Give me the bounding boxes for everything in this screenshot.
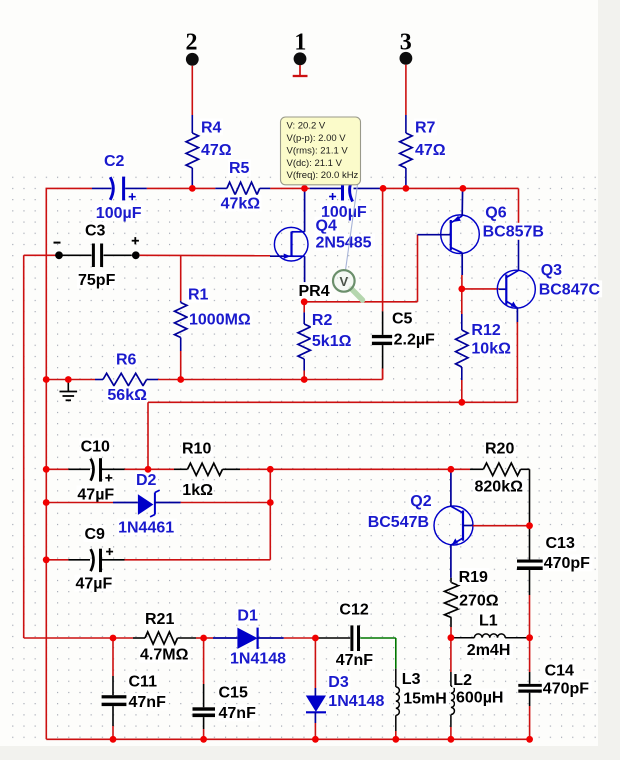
inductor L1 — [454, 634, 530, 638]
svg-text:V: V — [339, 274, 348, 289]
label D3 type 1N4148 — [327, 692, 387, 710]
svg-text:C9: C9 — [85, 526, 106, 543]
label R6 value 56kΩ — [106, 386, 148, 404]
transistor Q6 BC857B PNP — [418, 189, 480, 289]
label L3 value 15mH — [402, 689, 449, 707]
inductor L3 — [396, 638, 400, 739]
label C14 — [544, 662, 576, 680]
label R21 value 4.7MΩ — [139, 646, 190, 664]
wire C3 to R1 junction to Q4 gate — [140, 254, 270, 256]
terminal 2 — [186, 53, 199, 66]
junction L1 C13 C14 — [526, 634, 533, 641]
svg-text:47µF: 47µF — [77, 486, 114, 503]
wire top bus left corner down — [45, 188, 47, 739]
svg-text:D2: D2 — [136, 472, 157, 489]
junction D1 C12 D3 — [312, 635, 319, 642]
label C15 value 47nF — [218, 704, 258, 722]
label R4 value 47Ω — [200, 141, 232, 159]
label C13 — [545, 534, 577, 552]
junction R6 row left — [43, 376, 50, 383]
probe leader line — [345, 185, 357, 272]
wire Q4 source row to Q6 base corner — [304, 235, 417, 302]
diode D2 1N4461 — [113, 490, 181, 517]
junction R12 bottom — [458, 399, 465, 406]
svg-text:Q4: Q4 — [316, 218, 337, 235]
label R5 — [228, 159, 251, 177]
svg-text:1: 1 — [294, 29, 306, 55]
wire lower bus — [148, 402, 517, 469]
label R2 — [311, 311, 334, 329]
junction lower bus riser — [145, 466, 152, 473]
label R2 value 5k1Ω — [311, 332, 353, 350]
label L1 — [478, 612, 499, 630]
svg-text:C14: C14 — [545, 663, 574, 680]
wire Q6 collector junction to Q3 base — [462, 288, 499, 290]
svg-text:47µF: 47µF — [76, 576, 113, 593]
label Q4 type 2N5485 — [315, 234, 375, 252]
junction C9 row left — [43, 556, 50, 563]
svg-text:100µF: 100µF — [96, 205, 142, 222]
svg-text:L1: L1 — [479, 612, 498, 629]
wire C10 row — [46, 468, 470, 470]
label C1 value 100µF — [320, 203, 369, 221]
svg-text:R20: R20 — [485, 441, 514, 458]
label R20 value 820kΩ — [474, 478, 525, 496]
svg-text:820kΩ: 820kΩ — [475, 479, 524, 496]
svg-text:2: 2 — [186, 29, 198, 55]
resistor R20 — [470, 463, 530, 526]
label Q6 type BC857B — [482, 223, 546, 241]
inductor L2 — [451, 638, 455, 740]
capacitor C15 — [193, 638, 216, 739]
label R12 value 10kΩ — [470, 340, 512, 358]
junction top bus Q6 emitter — [460, 185, 467, 192]
junction L3 bottom — [392, 736, 399, 743]
label R10 value 1kΩ — [181, 481, 213, 499]
capacitor C13 — [517, 526, 544, 638]
svg-text:R21: R21 — [145, 611, 174, 628]
svg-text:47kΩ: 47kΩ — [221, 196, 261, 213]
junction ground tap — [65, 376, 72, 383]
label C3 value 75pF — [77, 271, 117, 289]
label C2 value 100µF — [95, 204, 144, 222]
junction C14 bottom — [526, 736, 533, 743]
label terminal 2 — [186, 29, 198, 55]
wire right bus corner down to Q3 collector — [518, 188, 520, 270]
junction C11 top — [110, 635, 117, 642]
svg-text:R19: R19 — [459, 569, 488, 586]
svg-text:L2: L2 — [453, 672, 472, 689]
wire bottom bus — [46, 738, 529, 740]
svg-text:47nF: 47nF — [336, 652, 374, 669]
svg-text:470pF: 470pF — [543, 681, 589, 698]
capacitor C9 — [68, 548, 124, 572]
label C13 value 470pF — [543, 554, 593, 572]
svg-text:5k1Ω: 5k1Ω — [312, 333, 352, 350]
junction D3 bottom — [312, 736, 319, 743]
svg-text:L3: L3 — [402, 671, 421, 688]
svg-text:1N4148: 1N4148 — [230, 650, 286, 667]
svg-text:R5: R5 — [229, 160, 250, 177]
label R7 — [414, 118, 437, 136]
label PR4 — [298, 282, 332, 300]
svg-text:V: 20.2 V: V: 20.2 V — [287, 121, 326, 132]
wire C9 row and right riser — [46, 469, 270, 560]
svg-text:BC857B: BC857B — [483, 224, 544, 241]
svg-text:56kΩ: 56kΩ — [107, 387, 147, 404]
wire R21 to D1 — [204, 637, 213, 639]
label R1 value 1000MΩ — [188, 311, 252, 329]
label L3 — [401, 670, 422, 688]
label D3 — [327, 673, 350, 691]
capacitor C2 — [92, 177, 147, 201]
svg-text:1000MΩ: 1000MΩ — [189, 312, 251, 329]
svg-text:75pF: 75pF — [78, 272, 116, 289]
junction C10 row right — [267, 466, 274, 473]
svg-text:4.7MΩ: 4.7MΩ — [140, 647, 189, 664]
junction C15 bottom — [200, 736, 207, 743]
svg-text:2.2µF: 2.2µF — [394, 332, 435, 349]
label D1 type 1N4148 — [229, 650, 289, 668]
capacitor C1 100µF — [310, 179, 381, 202]
label C10 value 47µF — [76, 486, 116, 504]
svg-text:47nF: 47nF — [219, 705, 257, 722]
terminal 1 — [294, 52, 307, 65]
resistor R10 — [174, 463, 240, 475]
label Q6 — [484, 204, 508, 222]
svg-text:C10: C10 — [81, 439, 110, 456]
label C9 value 47µF — [75, 575, 115, 593]
svg-text:47Ω: 47Ω — [415, 142, 446, 159]
wire C3 left to far-left vertical — [24, 255, 59, 638]
transistor Q3 BC847C NPN — [497, 270, 535, 402]
svg-text:R7: R7 — [415, 119, 436, 136]
resistor R12 — [456, 289, 468, 402]
svg-text:R6: R6 — [116, 352, 137, 369]
svg-text:C13: C13 — [546, 535, 575, 552]
label C12 value 47nF — [335, 651, 375, 669]
svg-text:600µH: 600µH — [456, 689, 503, 706]
svg-text:470pF: 470pF — [544, 555, 590, 572]
svg-text:BC847C: BC847C — [539, 281, 601, 298]
resistor R19 — [445, 578, 459, 638]
probe PR4 magnifier — [333, 270, 363, 300]
svg-text:R12: R12 — [471, 322, 500, 339]
label R5 value 47kΩ — [220, 195, 262, 213]
svg-text:R4: R4 — [201, 119, 222, 136]
junction Q2 collector — [448, 466, 455, 473]
capacitor C10 — [68, 458, 124, 481]
svg-text:1kΩ: 1kΩ — [182, 482, 213, 499]
capacitor C3 — [54, 237, 140, 267]
wire D2 row — [46, 502, 270, 504]
label C3 — [84, 222, 107, 240]
wire top bus segment C — [270, 187, 309, 189]
label D2 type 1N4461 — [117, 519, 177, 537]
resistor R6 — [95, 373, 158, 385]
svg-text:15mH: 15mH — [403, 690, 447, 707]
svg-text:D3: D3 — [328, 674, 349, 691]
label Q4 — [315, 217, 339, 235]
svg-text:V(dc): 21.1 V: V(dc): 21.1 V — [287, 158, 343, 169]
svg-text:1N4148: 1N4148 — [328, 693, 384, 710]
svg-text:PR4: PR4 — [299, 283, 330, 300]
svg-text:C11: C11 — [129, 674, 158, 691]
label L1 value 2m4H — [466, 641, 513, 659]
wire terminal2 to R4 — [191, 66, 193, 115]
junction top bus C5 — [380, 185, 387, 192]
diode D1 1N4148 — [213, 628, 284, 649]
capacitor C14 — [518, 638, 542, 740]
resistor R1 — [175, 256, 187, 380]
label C11 — [128, 673, 160, 691]
label C5 — [391, 310, 414, 328]
svg-text:C3: C3 — [85, 223, 106, 240]
label R1 — [187, 286, 210, 304]
label R21 — [144, 610, 176, 628]
measurement tooltip — [281, 117, 361, 185]
junction top bus R4 — [189, 185, 196, 192]
wire R6 row — [46, 369, 382, 380]
svg-text:V(p-p): 2.00 V: V(p-p): 2.00 V — [287, 133, 347, 144]
svg-text:C5: C5 — [392, 311, 413, 328]
svg-text:1N4461: 1N4461 — [118, 520, 174, 537]
label C2 — [103, 152, 126, 170]
label Q3 type BC847C — [538, 280, 602, 298]
transistor Q4 2N5485 JFET — [270, 189, 308, 302]
label R7 value 47Ω — [414, 141, 446, 159]
label C9 — [84, 525, 107, 543]
svg-text:Q2: Q2 — [410, 493, 431, 510]
transistor Q2 BC547B NPN mirrored — [434, 469, 530, 578]
wire terminal3 to R7 — [405, 65, 407, 115]
junction C10 row left — [43, 466, 50, 473]
capacitor C5 — [372, 188, 392, 379]
label terminal 1 — [294, 29, 306, 55]
svg-text:2N5485: 2N5485 — [316, 235, 372, 252]
wire top bus segment D — [381, 187, 519, 189]
resistor R7 — [400, 115, 412, 187]
label Q3 — [540, 261, 564, 279]
junction R21 D1 C15 — [200, 635, 207, 642]
svg-text:C2: C2 — [104, 153, 125, 170]
svg-text:R2: R2 — [312, 312, 333, 329]
resistor R2 — [298, 302, 310, 380]
label R4 — [200, 118, 223, 136]
label R19 — [458, 568, 490, 586]
stub and bar below terminal 1 — [293, 65, 308, 76]
label R20 — [484, 440, 516, 458]
resistor R21 — [133, 632, 204, 644]
wire L1 row left — [451, 637, 454, 639]
junction D2 row right — [267, 499, 274, 506]
svg-text:Q6: Q6 — [485, 205, 506, 222]
svg-text:R1: R1 — [188, 287, 209, 304]
svg-text:C12: C12 — [339, 602, 368, 619]
wire top bus segment A — [46, 187, 93, 189]
svg-text:V(freq): 20.0 kHz: V(freq): 20.0 kHz — [287, 170, 359, 181]
junction top bus Q4 drain — [301, 185, 308, 192]
svg-text:270Ω: 270Ω — [459, 593, 499, 610]
junction R19 L1 L2 — [448, 634, 455, 641]
capacitor C12 — [315, 625, 395, 651]
junction Q6 collector Q3 base — [458, 286, 465, 293]
wire D1 to C12 junction — [284, 637, 316, 639]
label terminal 3 — [400, 29, 412, 55]
svg-text:47Ω: 47Ω — [201, 142, 232, 159]
junction R2 bottom — [301, 376, 308, 383]
junction L2 bottom — [448, 736, 455, 743]
label R12 — [470, 321, 502, 339]
svg-text:V(rms): 21.1 V: V(rms): 21.1 V — [287, 145, 349, 156]
label Q2 type BC547B — [367, 513, 431, 531]
label R19 value 270Ω — [458, 592, 500, 610]
label C12 — [338, 601, 370, 619]
capacitor C11 — [102, 638, 127, 739]
svg-text:C15: C15 — [219, 685, 248, 702]
junction C11 bottom — [110, 736, 117, 743]
resistor R4 — [186, 115, 198, 187]
svg-text:10kΩ: 10kΩ — [471, 341, 511, 358]
label C5 value 2.2µF — [393, 331, 438, 349]
wire top bus segment B — [147, 187, 216, 189]
svg-text:R10: R10 — [182, 441, 211, 458]
label C14 value 470pF — [542, 680, 592, 698]
diode D3 1N4148 — [306, 638, 326, 739]
svg-text:3: 3 — [400, 29, 412, 55]
label D1 — [236, 607, 259, 625]
label C11 value 47nF — [128, 693, 168, 711]
label C10 — [80, 438, 112, 456]
ground symbol — [60, 380, 78, 401]
svg-text:D1: D1 — [237, 608, 258, 625]
svg-text:2m4H: 2m4H — [467, 642, 511, 659]
label L2 — [452, 671, 473, 689]
junction top bus R7 — [403, 185, 410, 192]
label R6 — [115, 351, 138, 369]
junction D2 row left — [43, 499, 50, 506]
resistor R5 — [215, 182, 270, 194]
junction R1 bottom — [177, 376, 184, 383]
label L2 value 600µH — [455, 689, 507, 707]
label C15 — [218, 684, 250, 702]
label R10 — [181, 440, 213, 458]
svg-text:BC547B: BC547B — [368, 514, 429, 531]
label Q2 — [409, 492, 433, 510]
wire R21 row left — [24, 637, 133, 639]
terminal 3 — [400, 52, 413, 65]
svg-text:Q3: Q3 — [541, 262, 562, 279]
label D2 — [135, 471, 158, 489]
svg-text:47nF: 47nF — [129, 694, 167, 711]
junction Q2 base C13 R20 — [526, 522, 533, 529]
junction Q4 source — [301, 298, 308, 305]
